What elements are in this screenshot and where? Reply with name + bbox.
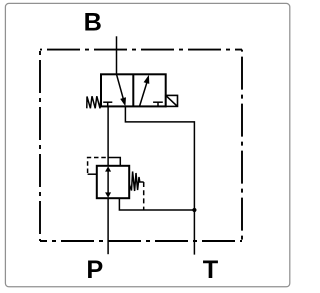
svg-text:B: B xyxy=(84,8,102,36)
svg-text:T: T xyxy=(203,256,219,284)
svg-text:P: P xyxy=(86,256,103,284)
